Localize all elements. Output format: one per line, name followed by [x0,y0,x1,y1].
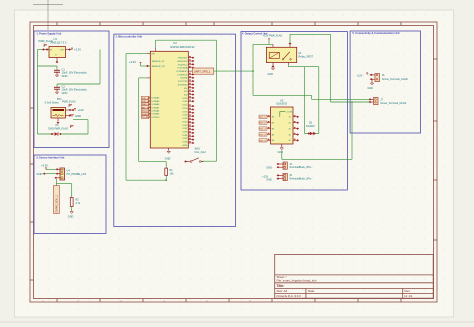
wire: UART drive across to J7 [253,95,312,99]
svg-text:GND: GND [266,166,272,169]
terminal block J5 [262,173,287,181]
svg-text:SENSOR_VN: SENSOR_VN [152,66,165,68]
BT1 GND pin [66,114,74,116]
svg-text:RLY_4: RLY_4 [260,135,267,137]
frame zone ticks sides [30,59,437,280]
global label UART_SPD_1 [192,68,214,74]
global labels sensor cluster [141,96,151,119]
svg-text:IO21/SDA: IO21/SDA [178,67,188,70]
svg-text:3. Sensor Interface Unit: 3. Sensor Interface Unit [36,156,64,159]
D1 labels [48,124,74,130]
svg-text:Screw_Terminal_01x02: Screw_Terminal_01x02 [380,102,407,105]
svg-text:AMS1117-3.3: AMS1117-3.3 [51,41,68,45]
svg-text:IO15: IO15 [183,98,189,100]
svg-text:IO25: IO25 [183,118,189,120]
svg-text:2. Microcontroller Unit: 2. Microcontroller Unit [116,36,143,39]
GND under J6 [367,79,373,90]
connector U4 body [60,168,65,180]
svg-text:Rev:: Rev: [405,289,411,293]
wire: input rail down left side [37,50,39,135]
U3 right output pins [293,115,299,141]
resistor R1 [165,168,168,180]
junction UART at relay feed [252,70,254,72]
svg-text:PH_ADC: PH_ADC [142,116,151,119]
U2 top pin [154,48,156,52]
svg-text:5. Connectivity & Communicatio: 5. Connectivity & Communication Unit [352,31,399,35]
regulator U1 body [49,47,66,58]
svg-text:GND: GND [183,145,188,147]
battery BT1 body [51,108,66,119]
svg-text:ULN2003: ULN2003 [276,102,288,106]
terminal block J4 [266,162,287,169]
wire: loop over U2 top [155,40,216,48]
U2 right pin names [176,58,188,147]
wire: relay coil feed [253,44,273,95]
origin axis crosshair [33,0,63,30]
PWR_FLAG label (input) [39,39,53,47]
U1 input pin + wire [38,48,50,50]
svg-text:RLY_2: RLY_2 [260,123,267,125]
svg-text:10uF, 16V Electrolytic: 10uF, 16V Electrolytic [62,88,88,92]
C1 labels [62,67,88,78]
U3 left input pins [267,115,271,140]
window divider line at bottom [0,321,474,323]
svg-text:+12V: +12V [357,74,363,77]
wire: U3 GND down to rail [281,151,283,160]
wire: vertical right of U2 down to SW1 [216,40,218,161]
svg-text:1. Power Supply Unit: 1. Power Supply Unit [36,32,61,35]
svg-text:EN: EN [152,54,155,56]
C2 labels [62,84,88,95]
wire: GND rail [282,158,352,160]
U1 GND pin [56,58,59,64]
svg-text:GND: GND [165,157,171,160]
BT1 bottom pin [57,118,60,124]
svg-text:Size: A4: Size: A4 [277,289,288,293]
U2 EN pin wire [126,53,150,55]
svg-text:4.7k: 4.7k [76,202,81,205]
sheet frame outer [30,22,437,302]
svg-text:IO14: IO14 [183,108,189,110]
svg-text:IO5/SS: IO5/SS [180,78,188,80]
U2 SENSOR_VN pin wire [139,77,151,79]
wire: relay NO contact up and over [290,34,331,102]
D2 labels [306,122,315,128]
svg-text:Relay_SPDT: Relay_SPDT [299,55,314,58]
svg-text:IO35: IO35 [183,132,189,134]
svg-text:IO33/A5: IO33/A5 [152,113,160,116]
svg-text:IO39/A3: IO39/A3 [152,100,160,103]
svg-text:+12V PWR_FLAG: +12V PWR_FLAG [263,35,283,38]
resistor R2 [70,198,73,214]
regulator U1 reference/value [51,37,68,44]
wire: EN loop down left [126,54,166,181]
svg-text:GND: GND [278,151,284,154]
svg-text:+12V: +12V [78,108,85,112]
U2 left cluster pin names [152,97,161,119]
svg-text:CAPAC_SOIL_1: CAPAC_SOIL_1 [55,194,58,212]
frame zone ticks top [57,22,401,26]
U3 reference/value [276,98,288,105]
relay K1 top pins [273,43,291,48]
svg-text:IO32/A4: IO32/A4 [152,110,160,113]
unit box 2 [114,34,236,226]
svg-text:IO13: IO13 [183,101,189,103]
svg-text:GND: GND [68,216,74,219]
unit box 3 [34,155,106,234]
R2 labels [76,198,81,204]
U1 output pin + wire to +3.3V [66,48,74,51]
wire: U4 pin3 to soil label [56,179,71,198]
svg-text:SENSOR_VP: SENSOR_VP [152,61,165,63]
diode D1 [51,132,62,136]
svg-text:RLY_1: RLY_1 [260,117,267,119]
U3 COM pin wire [280,111,292,116]
svg-text:GND: GND [75,114,81,118]
svg-text:+3.3V: +3.3V [41,163,48,167]
U2 GND pin bottom [165,148,171,160]
switch SW1 labels [195,148,207,154]
svg-text:IO16/RX2: IO16/RX2 [178,84,188,86]
wire: down to GND rail [351,102,353,159]
svg-text:GND: GND [268,73,274,76]
wire: C1 top tap [38,66,58,70]
svg-text:IO36/A0: IO36/A0 [152,97,160,100]
wire: SW1 right to loop [201,160,217,162]
U2 left cluster pins [147,96,151,117]
R1 labels [170,169,175,175]
driver U3 body [271,107,294,144]
K1 bottom pins + GND [268,63,275,76]
U3 input global labels [259,115,267,142]
svg-text:GND: GND [266,179,272,182]
wire: bottom rail right + up [61,120,89,135]
svg-text:RLY_3: RLY_3 [260,129,267,131]
K1 labels [299,52,314,58]
wire: tap down to R1 top [139,78,167,168]
J7 labels [380,99,407,106]
U4 pins [54,168,60,179]
svg-text:1N4007: 1N4007 [306,125,315,128]
svg-text:IO35/A7: IO35/A7 [152,106,160,109]
svg-text:GND: GND [62,91,68,95]
svg-text:U1: U1 [54,37,58,41]
wire: relay common to snubber [288,63,318,67]
svg-text:GND PWR_FLAG: GND PWR_FLAG [48,127,68,130]
svg-text:IO25/DC: IO25/DC [152,117,161,119]
svg-text:IO12: IO12 [183,105,189,107]
svg-text:GND: GND [367,87,373,90]
svg-text:IO22/SCL: IO22/SCL [178,64,188,66]
screw terminal J6 [357,72,380,81]
svg-text:Date:: Date: [308,289,315,293]
unit box 5 [350,31,420,133]
svg-text:UART_SPD_1: UART_SPD_1 [194,70,211,74]
U1 pin names inside [50,49,65,56]
svg-text:RXD0/IO3: RXD0/IO3 [177,61,188,63]
U4 labels [67,170,87,176]
svg-text:IO27: IO27 [183,111,189,113]
BT1 + pin wire to +12V [66,108,77,111]
svg-text:Id: 1/1: Id: 1/1 [405,294,413,298]
U3 pin names inside [272,117,292,143]
wire: UART_SPD_1 to box4 [214,70,253,72]
U2 left pin names [152,54,165,68]
global label CAPAC_SOIL (vertical) [54,186,60,214]
+3.3V power symbol [41,163,57,170]
wire: TX run to J7 [312,98,370,100]
battery BT1 labels [45,98,76,107]
svg-text:IO17/TX2: IO17/TX2 [178,81,188,83]
sheet frame inner [34,26,434,299]
U3 GND pin [278,144,284,154]
wire: C2 top tap [57,84,100,87]
svg-text:IO18/SCK: IO18/SCK [178,74,188,76]
svg-text:10uF, 16V Electrolytic: 10uF, 16V Electrolytic [62,71,88,75]
svg-text:IO19/MISO: IO19/MISO [176,71,187,73]
svg-text:RLY_5: RLY_5 [260,140,267,142]
relay K1 body [266,47,296,62]
svg-text:File: smart_irrigation.kicad_s: File: smart_irrigation.kicad_sch [277,279,317,283]
svg-text:GND: GND [37,172,43,176]
svg-text:TerminalBlock_2Pin: TerminalBlock_2Pin [289,178,312,181]
capacitor C1 [54,70,60,77]
svg-text:IO33: IO33 [183,125,189,127]
J6 labels [382,74,409,81]
wire: relay sense run to J7 pin 2 [331,101,371,103]
J5 labels [289,174,312,180]
switch SW1 [184,158,203,163]
U2 reference/value [171,41,196,49]
svg-text:IO38: IO38 [183,142,189,144]
junction J7 feed [351,101,353,103]
svg-text:IO34/A6: IO34/A6 [152,103,160,106]
unit box 4 [241,32,347,191]
wire: snubber legs [305,67,319,134]
wire: +3.3V rail down right side [72,50,101,85]
svg-text:Screw_Terminal_01x02: Screw_Terminal_01x02 [382,78,409,81]
frame zone ticks bottom [57,299,401,303]
svg-text:+3.3V: +3.3V [129,60,136,64]
svg-text:3-Cell Series: 3-Cell Series [45,102,60,105]
capacitor C2 [54,87,60,94]
microcontroller U2 body [150,51,188,148]
svg-text:U2: U2 [173,41,177,45]
title block [275,255,434,299]
svg-text:TerminalBlock_2Pin: TerminalBlock_2Pin [289,166,312,169]
GND symbol left [37,172,57,176]
svg-text:IO32: IO32 [183,128,189,130]
svg-text:IO34: IO34 [183,135,189,137]
svg-text:TXD0/IO1: TXD0/IO1 [178,58,189,60]
svg-text:GND: GND [62,74,68,78]
svg-text:PH_PROBE_U03: PH_PROBE_U03 [67,173,87,176]
J4 labels [289,163,312,169]
screw terminal J7 [369,97,378,104]
+12V PWR_FLAG labels [263,35,283,45]
svg-text:+COM: +COM [286,111,292,113]
wire: bottom rail [38,133,55,135]
svg-text:CAL_Fwd: CAL_Fwd [195,151,207,154]
U2 pin stub for UART label [188,70,192,72]
junction R1 bottom [165,179,167,181]
U2 right pins (stubs with numbers and markers) [188,56,194,144]
svg-text:ESP32-WROOM-32: ESP32-WROOM-32 [171,45,196,49]
svg-text:Title:: Title: [277,284,285,288]
frame zone numbers bottom [42,300,251,302]
svg-text:PWR_FLAG: PWR_FLAG [62,101,76,104]
svg-text:IO26: IO26 [183,115,189,117]
svg-text:IO23: IO23 [183,121,189,123]
diode D2 [305,132,319,135]
+3.3V power into U2 [129,60,150,67]
svg-text:IO39: IO39 [183,138,189,140]
unit box 1 [34,31,109,148]
svg-text:KiCad E.D.A. 9.0.3: KiCad E.D.A. 9.0.3 [277,294,302,298]
